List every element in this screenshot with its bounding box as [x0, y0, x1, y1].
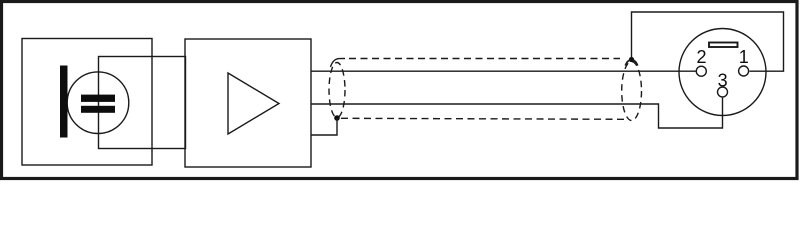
shield gather dot right [629, 57, 634, 62]
amplifier box [185, 39, 311, 167]
pin 1 [739, 66, 749, 76]
svg-text:3: 3 [718, 71, 728, 91]
conductor hot wire (amp to pin 2) [311, 70, 696, 72]
impedance converter box [99, 57, 186, 149]
cable shield bottom dashed line [341, 118, 626, 119]
conductor return wire (amp to pin 3) [311, 98, 723, 128]
svg-text:2: 2 [696, 47, 706, 67]
microphone capsule box [22, 39, 152, 166]
shield drain wire to pin 1 [632, 12, 784, 71]
cable shield top dashed line [349, 58, 620, 60]
XLR connector shell [679, 29, 766, 116]
capacitor plate bottom [81, 106, 115, 113]
op-amp triangle [228, 73, 279, 134]
shield wire to amp [311, 118, 337, 135]
XLR latch slot [709, 43, 738, 48]
svg-text:1: 1 [739, 47, 749, 67]
cable shield top pigtail arc [331, 59, 346, 68]
shield gather wing right [632, 60, 638, 66]
condenser capsule circle [67, 72, 129, 134]
pin 3 [718, 87, 728, 97]
diaphragm bar [60, 66, 68, 138]
capacitor plate top [81, 95, 115, 102]
cable shield ellipse right [622, 62, 642, 121]
cable shield ellipse left [329, 63, 345, 118]
pin 2 [696, 66, 706, 76]
shield junction dot left [334, 115, 340, 121]
shield gather wing left [625, 60, 631, 66]
